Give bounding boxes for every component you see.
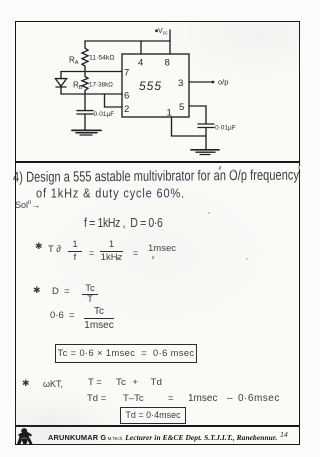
- svg-text:1: 1: [167, 108, 172, 119]
- svg-text:0·01µF: 0·01µF: [215, 125, 236, 132]
- svg-text:o/p: o/p: [218, 78, 228, 87]
- svg-text:5: 5: [179, 102, 184, 113]
- svg-text:7: 7: [124, 68, 129, 79]
- svg-text:3: 3: [178, 78, 183, 89]
- svg-text:6: 6: [124, 91, 129, 102]
- svg-text:0·01µF: 0·01µF: [94, 111, 115, 118]
- svg-text:11·54kΩ: 11·54kΩ: [89, 55, 115, 62]
- svg-text:4: 4: [138, 58, 143, 69]
- svg-text:8: 8: [165, 58, 170, 69]
- svg-text:Vcc: Vcc: [158, 28, 168, 37]
- svg-text:2: 2: [124, 104, 129, 115]
- svg-text:RA: RA: [69, 56, 79, 67]
- svg-text:17·38kΩ: 17·38kΩ: [89, 82, 113, 89]
- svg-text:555: 555: [139, 79, 162, 93]
- svg-text:RB: RB: [73, 81, 83, 92]
